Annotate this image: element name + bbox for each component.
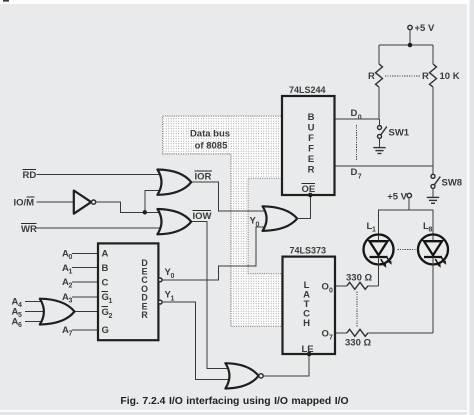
buffer U1 74LS244 <box>282 85 335 195</box>
caption <box>120 396 348 407</box>
svg-text:F: F <box>308 133 314 144</box>
wire: branch up to IOR gate lower input <box>145 191 163 213</box>
wire: A7 input <box>62 325 98 338</box>
nor-gate U4 (latch enable) <box>225 363 263 388</box>
wire: dotted link between LEDs <box>398 249 418 251</box>
net IO/M <box>14 197 35 208</box>
resistor R (left pull-up) <box>368 45 383 119</box>
wire: IOW routing down to NOR gate upper input <box>191 222 230 369</box>
wire: IOR routing to OE gate upper input <box>191 182 268 211</box>
svg-text:7: 7 <box>69 331 73 338</box>
wire: WR to IOW gate <box>36 227 163 229</box>
pin O0 (latch) <box>322 282 334 295</box>
wire: Y1 routing to NOR gate lower input <box>162 302 231 380</box>
svg-text:3: 3 <box>69 298 73 305</box>
switch SW1 <box>378 119 410 148</box>
net IOR <box>195 171 212 182</box>
pin OE (buffer) <box>302 184 316 198</box>
svg-text:+5 V: +5 V <box>387 192 407 203</box>
pin LE (latch) <box>302 344 314 357</box>
wire: A4 input to OR gate <box>12 297 47 310</box>
svg-text:0: 0 <box>69 254 73 261</box>
svg-text:Fig. 7.2.4 I/O interfacing usi: Fig. 7.2.4 I/O interfacing using I/O map… <box>120 396 348 407</box>
svg-text:330 Ω: 330 Ω <box>346 273 372 284</box>
svg-text:R: R <box>308 165 315 176</box>
svg-text:7: 7 <box>329 335 333 342</box>
svg-text:0: 0 <box>171 273 175 280</box>
svg-text:6: 6 <box>18 322 22 329</box>
ground (below SW8) <box>427 197 439 203</box>
wire: A5 input to OR gate <box>12 307 45 320</box>
ground (below SW1) <box>373 148 385 154</box>
wire: dashed link between D0 and D7 <box>356 125 358 160</box>
svg-text:SW1: SW1 <box>389 128 410 139</box>
svg-text:OE: OE <box>302 184 316 195</box>
svg-text:IOR: IOR <box>195 172 212 183</box>
svg-text:0: 0 <box>358 115 362 122</box>
wire: D0 from buffer to SW1 <box>335 108 380 122</box>
svg-text:1: 1 <box>372 227 376 234</box>
wire: OR gate output to G2 pin <box>75 311 99 313</box>
resistor R 10 K (right pull-up) <box>422 45 460 166</box>
svg-text:A: A <box>102 249 109 260</box>
svg-text:B: B <box>308 112 315 123</box>
wire: Y0 routing to OE gate lower input <box>162 227 268 280</box>
wire: dotted link between 330 ohm resistors <box>356 292 358 328</box>
wire: inverter output routing to junction <box>96 202 164 212</box>
wire: IO/M to inverter <box>37 201 74 203</box>
power +5V (LED supply) <box>387 192 411 203</box>
or-gate IOR <box>157 170 191 195</box>
wire: pull-up rail <box>379 44 433 46</box>
svg-text:of 8085: of 8085 <box>195 141 228 152</box>
svg-text:R: R <box>368 71 375 82</box>
svg-text:8: 8 <box>429 227 433 234</box>
net WR <box>21 223 37 234</box>
wire: A3 input <box>62 292 98 305</box>
svg-text:0: 0 <box>256 222 260 229</box>
svg-text:WR: WR <box>21 224 37 235</box>
svg-text:R: R <box>141 310 148 320</box>
svg-text:E: E <box>308 154 314 165</box>
latch U2 74LS373 <box>283 246 336 355</box>
wire: A2 input <box>62 277 98 290</box>
pin O7 (latch) <box>322 329 334 342</box>
inverter (IO/M) <box>74 191 96 214</box>
LED L8 <box>418 221 448 333</box>
power +5V (top) <box>408 23 435 34</box>
wire: LED rail right drop <box>409 210 433 235</box>
svg-text:G: G <box>102 325 109 336</box>
svg-text:4: 4 <box>18 302 22 309</box>
svg-text:R: R <box>422 71 429 82</box>
switch SW8 <box>431 166 462 197</box>
svg-text:O: O <box>322 282 329 293</box>
wire: OE gate output up to buffer OE pin <box>297 195 310 219</box>
or-gate IOW <box>157 209 191 234</box>
svg-text:1: 1 <box>171 295 175 302</box>
svg-text:IOW: IOW <box>193 211 212 222</box>
svg-text:330 Ω: 330 Ω <box>345 338 371 349</box>
net RD <box>23 170 37 181</box>
svg-text:H: H <box>303 318 310 329</box>
svg-text:74LS373: 74LS373 <box>290 246 327 256</box>
svg-text:F: F <box>308 144 314 155</box>
svg-text:2: 2 <box>69 283 73 290</box>
LED L1 <box>364 221 394 286</box>
svg-text:B: B <box>102 263 109 274</box>
svg-text:IO/M: IO/M <box>14 198 35 209</box>
svg-text:SW8: SW8 <box>442 178 463 189</box>
svg-text:Data bus: Data bus <box>190 129 230 140</box>
wire: A1 input <box>62 263 98 276</box>
wire: RD to IOR gate <box>37 173 163 175</box>
svg-text:7: 7 <box>358 174 362 181</box>
resistor 330 ohm (O0) <box>335 273 379 290</box>
resistor 330 ohm (O7) <box>335 329 433 348</box>
node: junction on +5V rail <box>408 43 413 48</box>
node: junction on IO/M line <box>143 210 147 214</box>
svg-text:D: D <box>351 108 358 119</box>
svg-text:5: 5 <box>18 312 22 319</box>
svg-text:C: C <box>102 277 109 288</box>
svg-text:D: D <box>351 167 358 178</box>
svg-text:1: 1 <box>69 268 73 275</box>
svg-text:2: 2 <box>109 313 113 320</box>
svg-text:U: U <box>308 123 315 134</box>
or-gate U5 (address select) <box>40 299 75 325</box>
svg-text:10 K: 10 K <box>440 71 460 82</box>
wire: D7 from buffer to SW8 <box>335 166 434 181</box>
node: data bus of 8085 (hatched bus region) <box>163 116 282 326</box>
svg-text:0: 0 <box>329 288 333 295</box>
wire: A6 input to OR gate <box>12 316 47 329</box>
net IOW <box>193 211 212 222</box>
svg-text:74LS244: 74LS244 <box>289 85 326 95</box>
pin Y1 (decoder output) <box>158 289 174 304</box>
svg-text:1: 1 <box>109 298 113 305</box>
decoder U6 <box>98 243 158 340</box>
or-gate U3 (OE enable) <box>250 206 298 231</box>
wire: NOR output to latch LE pin <box>263 354 309 376</box>
wire: +5V stem to pull-up rail <box>409 30 411 45</box>
wire: A0 input <box>62 249 98 262</box>
svg-text:O: O <box>322 329 329 340</box>
pin Y0 (decoder output) <box>158 267 174 282</box>
svg-text:RD: RD <box>23 170 37 181</box>
wire: +5V to LED rail <box>379 198 410 235</box>
svg-text:+5 V: +5 V <box>415 23 435 34</box>
wire: dashed link between pull-up resistors <box>385 75 421 77</box>
